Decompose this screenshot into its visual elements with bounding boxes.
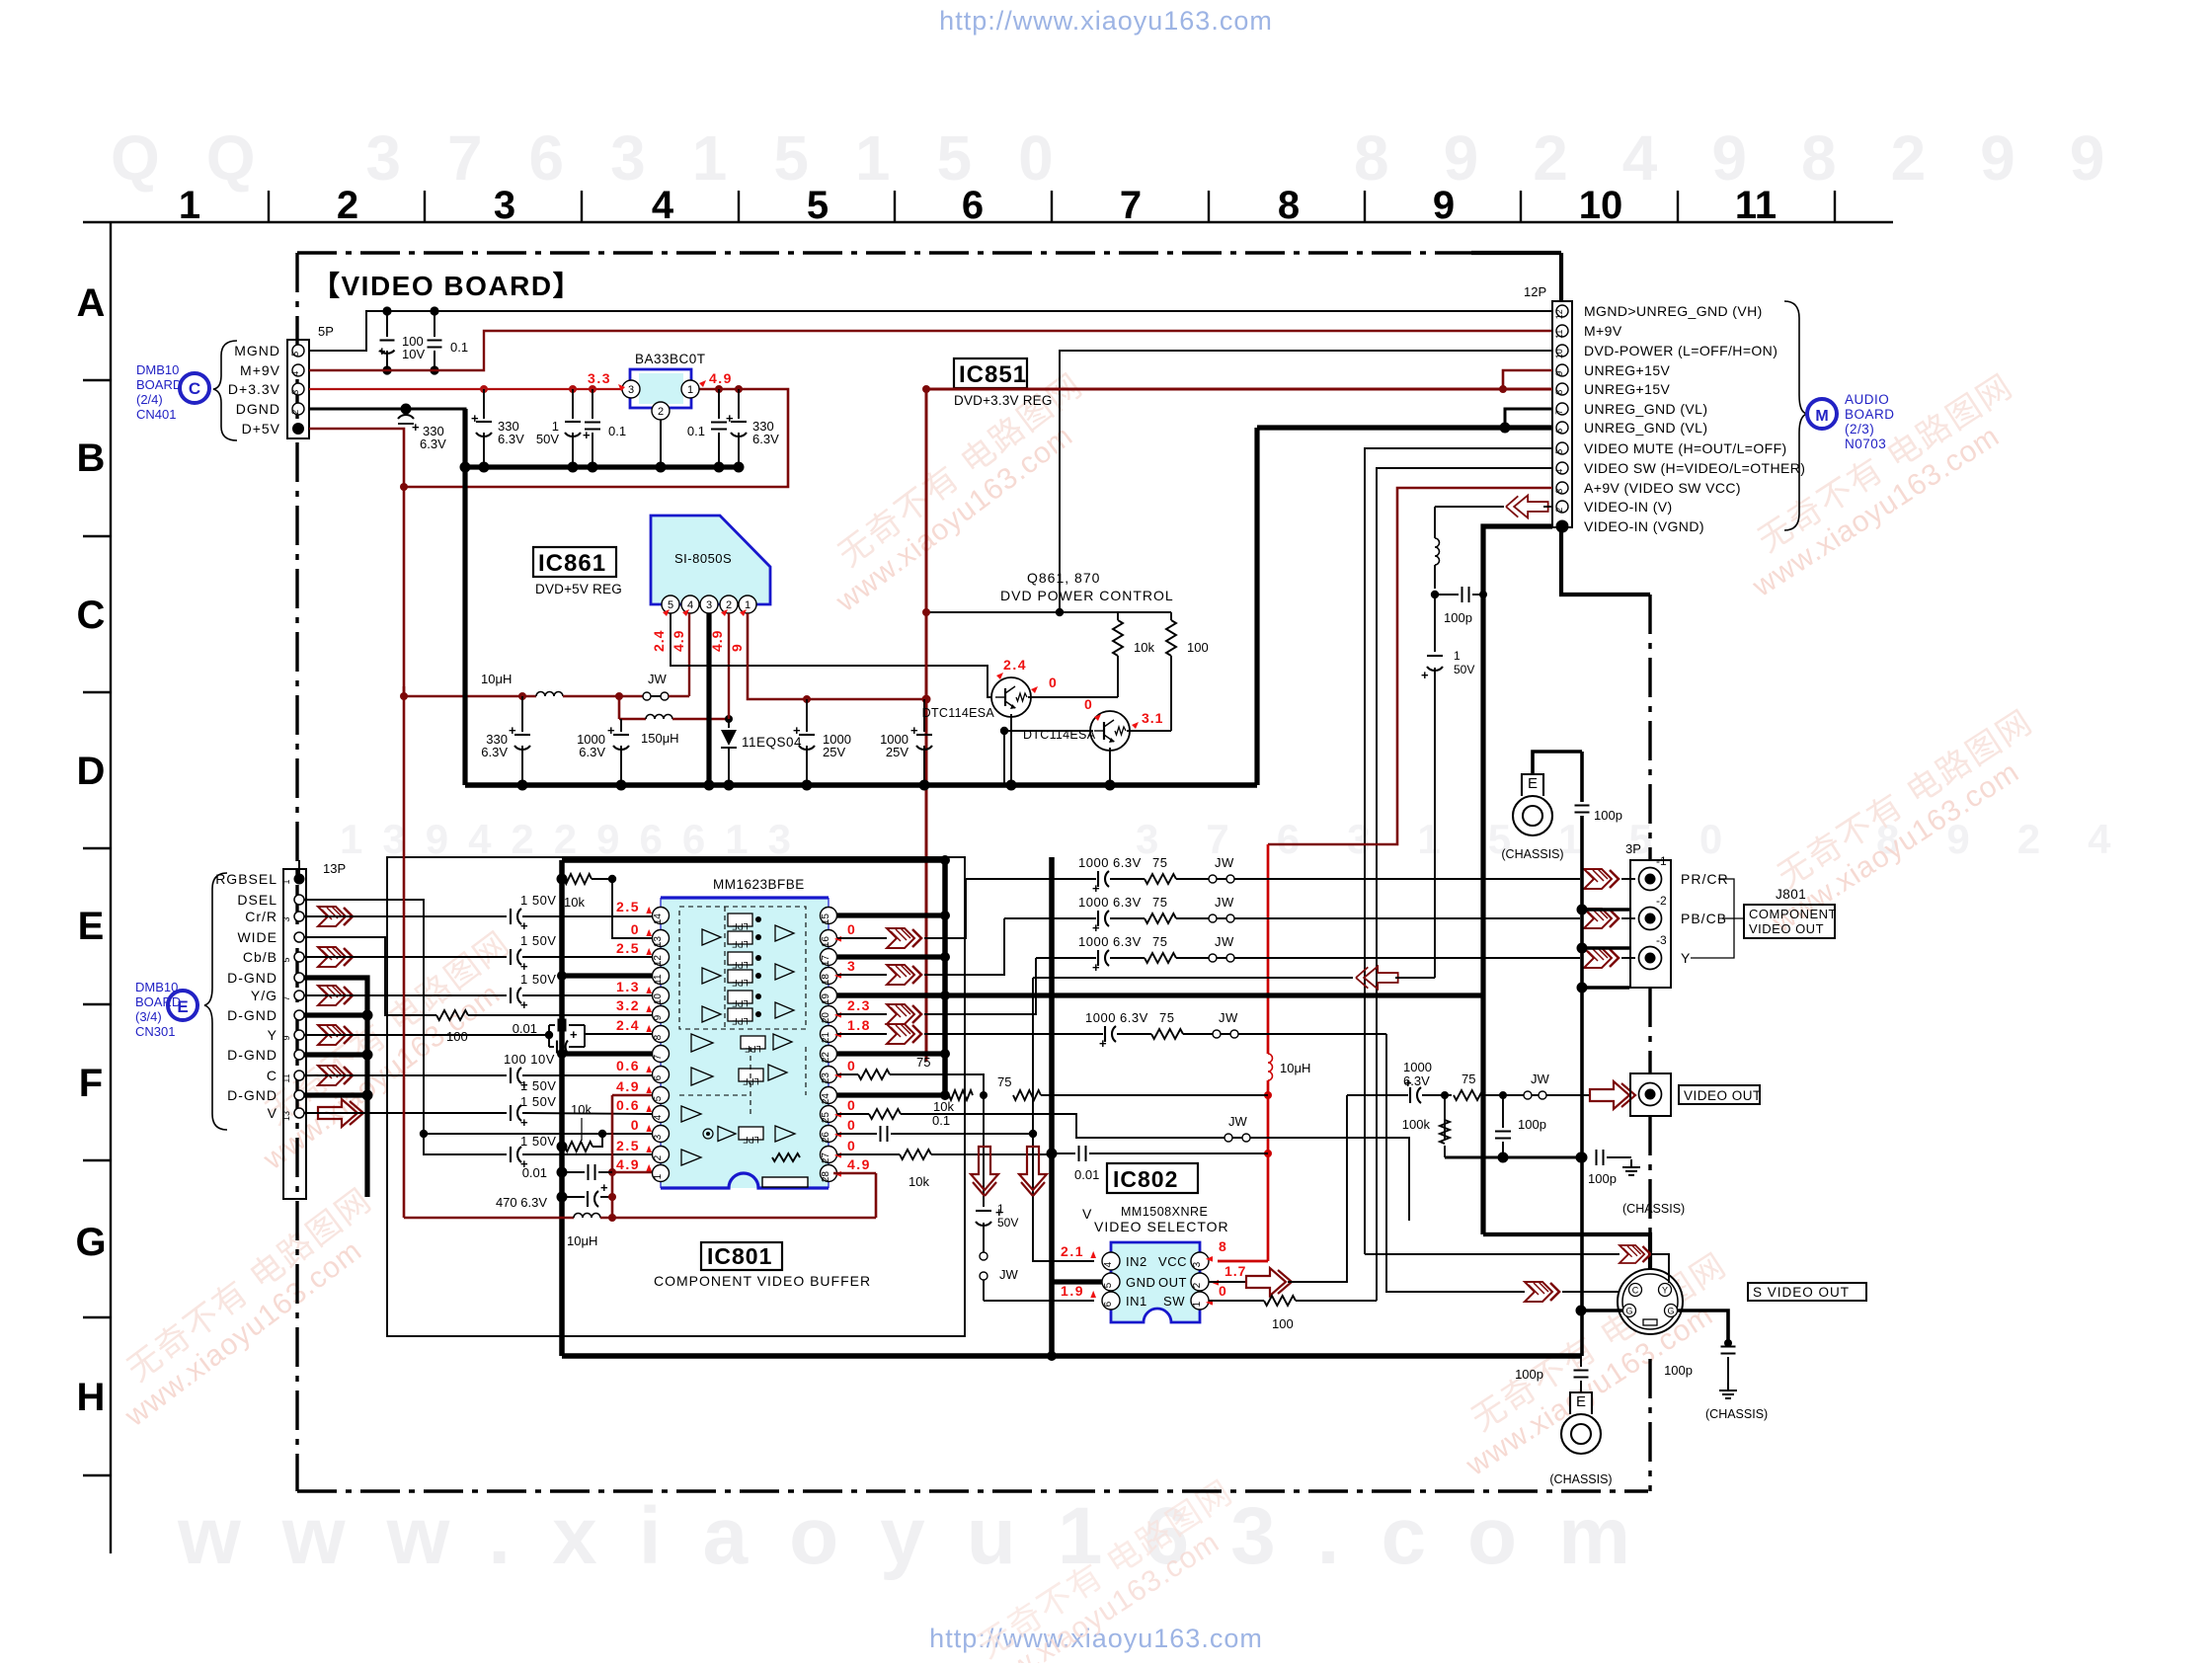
svg-text:0.1: 0.1 bbox=[450, 340, 468, 355]
svg-text:0.1: 0.1 bbox=[932, 1113, 950, 1128]
svg-text:7: 7 bbox=[1120, 184, 1142, 227]
svg-text:E: E bbox=[1576, 1393, 1586, 1410]
svg-text:0: 0 bbox=[631, 921, 640, 937]
capacitor 100p in ground spine bbox=[1575, 805, 1590, 807]
svg-text:1: 1 bbox=[1192, 1301, 1203, 1307]
wire Y/G input bbox=[304, 994, 507, 996]
svg-text:6.3V: 6.3V bbox=[1403, 1073, 1430, 1088]
svg-text:LPF: LPF bbox=[745, 1044, 761, 1054]
svg-text:3: 3 bbox=[494, 184, 515, 227]
svg-text:13942296613: 13942296613 bbox=[340, 816, 811, 862]
capacitor 1000 6.3V resistor 75 jumper JW on Y row bbox=[1036, 957, 1096, 959]
wire ground to IC801 pin7 bbox=[562, 1051, 652, 1056]
svg-text:6: 6 bbox=[653, 1074, 664, 1080]
wire VIDEO-IN VGND net bbox=[1483, 526, 1552, 1234]
wire RGBSEL to ground bus bbox=[298, 860, 300, 874]
svg-text:1000 6.3V: 1000 6.3V bbox=[1078, 934, 1142, 949]
svg-text:8: 8 bbox=[1219, 1238, 1226, 1254]
wire 4.9V supply loop with inductor 10uH bbox=[403, 686, 406, 1218]
svg-text:D+5V: D+5V bbox=[242, 421, 280, 437]
wire M+9V net bbox=[309, 331, 1552, 370]
svg-text:10: 10 bbox=[1554, 349, 1564, 358]
svg-text:JW: JW bbox=[648, 672, 668, 686]
svg-text:4: 4 bbox=[1554, 469, 1564, 474]
svg-text:100p: 100p bbox=[1664, 1363, 1693, 1378]
arrow Y to S-video bbox=[1619, 1245, 1651, 1263]
svg-text:D-GND: D-GND bbox=[227, 1047, 277, 1063]
svg-text:0.01: 0.01 bbox=[1074, 1167, 1099, 1182]
svg-text:C: C bbox=[77, 594, 106, 637]
wire jack shield stubs bbox=[1577, 905, 1588, 915]
svg-text:G: G bbox=[1667, 1307, 1674, 1316]
wire VGND to IC801 pin19 bbox=[837, 993, 1483, 997]
svg-text:2: 2 bbox=[726, 599, 732, 611]
svg-text:2.5: 2.5 bbox=[616, 1138, 640, 1153]
svg-text:+: + bbox=[570, 1027, 578, 1042]
svg-text:3.2: 3.2 bbox=[616, 997, 640, 1013]
svg-text:4.9: 4.9 bbox=[616, 1078, 640, 1094]
svg-text:+: + bbox=[520, 997, 528, 1012]
svg-text:DVD-POWER (L=OFF/H=ON): DVD-POWER (L=OFF/H=ON) bbox=[1584, 343, 1777, 358]
svg-text:【VIDEO BOARD】: 【VIDEO BOARD】 bbox=[312, 271, 582, 301]
inductor 150uH branch to IC861 pin2 bbox=[618, 696, 621, 719]
svg-text:GND: GND bbox=[1126, 1275, 1155, 1290]
svg-text:Cr/R: Cr/R bbox=[245, 909, 277, 924]
resistor 75 on video out bbox=[1454, 1090, 1485, 1100]
wire IC861 pin5 control bbox=[671, 613, 994, 697]
svg-text:6.3V: 6.3V bbox=[579, 745, 605, 759]
svg-text:6: 6 bbox=[1103, 1301, 1114, 1307]
svg-text:12: 12 bbox=[653, 955, 664, 967]
label IC851 DVD+3.3V REG bbox=[954, 358, 1027, 388]
svg-text:DVD+5V REG: DVD+5V REG bbox=[535, 582, 622, 596]
svg-text:M+9V: M+9V bbox=[240, 362, 280, 378]
svg-text:75: 75 bbox=[1461, 1072, 1475, 1086]
svg-text:(CHASSIS): (CHASSIS) bbox=[1501, 847, 1563, 861]
wire S-video ground left bbox=[1581, 1309, 1622, 1312]
wire IC801 pin27 with resistor bbox=[837, 1153, 900, 1155]
svg-text:1.8: 1.8 bbox=[847, 1017, 871, 1033]
svg-text:5: 5 bbox=[807, 184, 829, 227]
connector S VIDEO OUT bbox=[1618, 1269, 1683, 1334]
svg-text:100k: 100k bbox=[1402, 1117, 1431, 1132]
svg-text:COMPONENT: COMPONENT bbox=[1749, 907, 1837, 921]
svg-text:UNREG+15V: UNREG+15V bbox=[1584, 381, 1671, 397]
svg-text:D+3.3V: D+3.3V bbox=[228, 381, 280, 397]
capacitor 100p to bottom chassis E bbox=[1580, 1356, 1582, 1367]
svg-text:75: 75 bbox=[1152, 855, 1167, 870]
svg-text:1 50V: 1 50V bbox=[520, 933, 556, 948]
wire chassis ground spine bbox=[1533, 752, 1582, 774]
svg-text:+: + bbox=[1421, 668, 1429, 682]
svg-text:UNREG+15V: UNREG+15V bbox=[1584, 362, 1671, 378]
svg-text:10k: 10k bbox=[908, 1174, 929, 1189]
svg-text:1000: 1000 bbox=[1403, 1060, 1432, 1074]
svg-text:JW: JW bbox=[1228, 1114, 1248, 1129]
svg-text:10: 10 bbox=[1579, 184, 1623, 227]
svg-text:50V: 50V bbox=[536, 432, 559, 446]
svg-text:1 50V: 1 50V bbox=[520, 972, 556, 987]
svg-text:7: 7 bbox=[653, 1054, 664, 1060]
wire thin enclosure around IC801 section bbox=[387, 857, 965, 1336]
video board outline left dash-dot bbox=[295, 253, 298, 1491]
svg-text:5: 5 bbox=[281, 957, 291, 962]
svg-text:+: + bbox=[471, 411, 479, 426]
svg-text:14: 14 bbox=[653, 913, 664, 925]
svg-text:2: 2 bbox=[1192, 1282, 1203, 1288]
svg-text:6: 6 bbox=[962, 184, 984, 227]
svg-text:JW: JW bbox=[1215, 855, 1234, 870]
wire ground bus right of IC801 bbox=[942, 860, 948, 1095]
wire IC801 pin20 Y output / arrow bbox=[837, 1013, 887, 1015]
capacitor 0.01 VCC decoupling bbox=[1047, 1149, 1058, 1159]
resistor 10k and resistor 75 at IC801 pin24 VCC bbox=[949, 1090, 973, 1100]
svg-text:0: 0 bbox=[631, 1117, 640, 1133]
wire video out row bbox=[1347, 1094, 1408, 1096]
svg-text:+: + bbox=[412, 420, 420, 435]
svg-text:1.9: 1.9 bbox=[1061, 1283, 1084, 1299]
svg-text:1: 1 bbox=[1454, 649, 1461, 663]
svg-text:3: 3 bbox=[628, 384, 634, 396]
op-amp U IC802 MM1508XNRE VIDEO SELECTOR body bbox=[1111, 1242, 1200, 1322]
wire DVD power control node bbox=[926, 611, 1171, 613]
wire IC861 pin1 9V input rail bbox=[748, 613, 926, 699]
svg-text:+: + bbox=[910, 723, 918, 738]
svg-text:JW: JW bbox=[1219, 1010, 1238, 1025]
svg-text:+: + bbox=[1092, 920, 1100, 935]
svg-text:3.3: 3.3 bbox=[588, 370, 611, 386]
svg-text:25V: 25V bbox=[823, 745, 845, 759]
svg-text:JW: JW bbox=[1215, 895, 1234, 910]
svg-text:100: 100 bbox=[1272, 1316, 1294, 1331]
svg-text:www.xiaoyu163.com: www.xiaoyu163.com bbox=[177, 1491, 1672, 1581]
svg-text:D-GND: D-GND bbox=[227, 1087, 277, 1103]
svg-text:BOARD: BOARD bbox=[135, 994, 181, 1009]
wire UNREG+15V pins 8-9 bbox=[1503, 370, 1552, 389]
svg-text:+: + bbox=[726, 411, 734, 426]
svg-text:1: 1 bbox=[997, 1202, 1004, 1216]
ground chassis E symbol bottom bbox=[1570, 1392, 1592, 1414]
wire S-video ground right with capacitor 100p bbox=[1678, 1311, 1728, 1343]
capacitor 100p pulldown bbox=[1502, 1095, 1504, 1128]
svg-text:JW: JW bbox=[1215, 934, 1234, 949]
svg-text:C: C bbox=[267, 1068, 277, 1083]
svg-text:LPF: LPF bbox=[732, 939, 749, 949]
svg-text:N0703: N0703 bbox=[1845, 437, 1886, 451]
svg-text:0.01: 0.01 bbox=[513, 1021, 537, 1036]
wire A+9V net bbox=[1268, 488, 1552, 844]
svg-text:DGND: DGND bbox=[236, 401, 280, 417]
svg-text:1.3: 1.3 bbox=[616, 979, 640, 994]
arrow video-in signal flow bbox=[1506, 496, 1548, 518]
svg-text:11: 11 bbox=[1735, 184, 1777, 227]
svg-text:0.01: 0.01 bbox=[522, 1165, 547, 1180]
board ref circle C / DMB10 BOARD CN401 bbox=[180, 373, 209, 403]
capacitor 0.01 and capacitor 470 6.3V on 4.9V rail bbox=[557, 1167, 568, 1178]
svg-text:10k: 10k bbox=[1134, 640, 1154, 655]
svg-text:Y: Y bbox=[1662, 1286, 1668, 1296]
video board outline top dash-dot bbox=[297, 251, 1471, 254]
svg-text:Y/G: Y/G bbox=[251, 988, 277, 1003]
watermark pink diagonal group bbox=[234, 924, 537, 1177]
svg-text:0.6: 0.6 bbox=[616, 1097, 640, 1113]
svg-text:DMB10: DMB10 bbox=[135, 980, 178, 994]
svg-text:17: 17 bbox=[821, 955, 831, 967]
svg-text:4: 4 bbox=[652, 184, 674, 227]
svg-text:4.9: 4.9 bbox=[847, 1156, 871, 1172]
svg-text:IN1: IN1 bbox=[1126, 1294, 1147, 1309]
svg-text:SW: SW bbox=[1163, 1294, 1185, 1309]
svg-text:0: 0 bbox=[1219, 1283, 1226, 1299]
svg-text:+: + bbox=[793, 723, 801, 738]
svg-text:D-GND: D-GND bbox=[227, 970, 277, 986]
svg-text:9: 9 bbox=[729, 643, 745, 652]
transistor Q861 DTC114ESA bbox=[991, 677, 1031, 717]
svg-text:B: B bbox=[77, 437, 106, 480]
svg-text:F: F bbox=[79, 1062, 103, 1105]
svg-text:LPF: LPF bbox=[732, 1016, 749, 1026]
svg-text:DSEL: DSEL bbox=[237, 892, 277, 908]
svg-text:3: 3 bbox=[290, 390, 300, 395]
resistor 100k pulldown bbox=[1444, 1095, 1446, 1140]
svg-text:VIDEO SW (H=VIDEO/L=OTHER): VIDEO SW (H=VIDEO/L=OTHER) bbox=[1584, 460, 1805, 476]
svg-text:5: 5 bbox=[668, 599, 673, 611]
wire IC801 pin16 PR output / arrow bbox=[837, 937, 887, 939]
wire ground bus of regulator section bbox=[465, 782, 1257, 788]
capacitor 100 10V and capacitor 0.1 on M+9V bbox=[382, 306, 391, 315]
svg-text:2.5: 2.5 bbox=[616, 940, 640, 956]
svg-text:50V: 50V bbox=[1454, 663, 1474, 676]
svg-text:E: E bbox=[78, 905, 105, 948]
svg-text:10k: 10k bbox=[564, 895, 585, 910]
wire D+3.3V net bbox=[309, 388, 622, 390]
svg-text:2: 2 bbox=[658, 406, 664, 418]
svg-text:5: 5 bbox=[1103, 1282, 1114, 1288]
svg-text:(CHASSIS): (CHASSIS) bbox=[1705, 1407, 1768, 1421]
wire VIDEO SW net bbox=[1377, 468, 1552, 1301]
svg-text:100p: 100p bbox=[1588, 1171, 1617, 1186]
svg-text:SI-8050S: SI-8050S bbox=[674, 551, 732, 566]
capacitor 100 10V on C bbox=[510, 1068, 512, 1083]
wire ground bus to IC802 GND bbox=[1049, 857, 1055, 1356]
wire IC801 pin18 PB output / arrow bbox=[837, 974, 887, 976]
label IC802 bbox=[1107, 1163, 1198, 1193]
svg-text:VIDEO OUT: VIDEO OUT bbox=[1749, 921, 1824, 936]
svg-text:10V: 10V bbox=[402, 347, 425, 361]
svg-text:75: 75 bbox=[1152, 895, 1167, 910]
svg-text:IC861: IC861 bbox=[538, 550, 606, 577]
arrow C to S-video bbox=[1525, 1282, 1559, 1302]
svg-text:G: G bbox=[75, 1221, 106, 1264]
wire IC861 pin3 ground bbox=[706, 613, 711, 785]
wire IC801 pin23 with resistor 75 bbox=[837, 1073, 858, 1075]
svg-text:JW: JW bbox=[1531, 1072, 1550, 1086]
board outline right edge via connectors bbox=[1561, 527, 1650, 595]
svg-text:VCC: VCC bbox=[1158, 1254, 1187, 1269]
svg-text:IN2: IN2 bbox=[1126, 1254, 1147, 1269]
svg-text:+: + bbox=[520, 918, 528, 933]
svg-text:11: 11 bbox=[1554, 330, 1564, 339]
svg-text:6: 6 bbox=[1554, 429, 1564, 434]
svg-text:VIDEO-IN (VGND): VIDEO-IN (VGND) bbox=[1584, 518, 1704, 534]
svg-text:(2/3): (2/3) bbox=[1845, 422, 1874, 437]
svg-text:26: 26 bbox=[821, 1132, 831, 1144]
svg-text:M+9V: M+9V bbox=[1584, 323, 1622, 339]
svg-text:16: 16 bbox=[821, 936, 831, 948]
svg-text:DVD POWER CONTROL: DVD POWER CONTROL bbox=[1000, 588, 1174, 603]
svg-text:20: 20 bbox=[821, 1012, 831, 1024]
svg-text:S VIDEO OUT: S VIDEO OUT bbox=[1753, 1285, 1850, 1300]
wire pulldown ground row bbox=[1445, 1156, 1581, 1159]
svg-text:27: 27 bbox=[821, 1152, 831, 1164]
svg-text:7: 7 bbox=[281, 995, 291, 1000]
svg-text:LPF: LPF bbox=[732, 960, 749, 970]
svg-text:UNREG_GND (VL): UNREG_GND (VL) bbox=[1584, 420, 1707, 436]
svg-text:(2/4): (2/4) bbox=[136, 392, 163, 407]
jack VIDEO OUT bbox=[1630, 1073, 1671, 1116]
svg-text:10: 10 bbox=[653, 993, 664, 1005]
wire A+9V vertical with inductor 10uH bbox=[1267, 844, 1270, 1054]
svg-text:4.9: 4.9 bbox=[709, 370, 733, 386]
svg-text:QQ 376315150: QQ 376315150 bbox=[111, 122, 1100, 194]
svg-text:11: 11 bbox=[653, 974, 664, 985]
svg-text:75: 75 bbox=[1159, 1010, 1174, 1025]
wire IC801 pin21 C output / arrow bbox=[837, 1033, 887, 1035]
svg-text:DTC114ESA: DTC114ESA bbox=[922, 706, 995, 720]
capacitor 1000 6.3V resistor 75 jumper JW on PB row bbox=[1004, 917, 1096, 919]
svg-text:28: 28 bbox=[821, 1171, 831, 1183]
svg-text:E: E bbox=[1528, 775, 1538, 792]
svg-text:13: 13 bbox=[281, 1111, 291, 1121]
wire C input bbox=[304, 1074, 507, 1076]
svg-text:C: C bbox=[189, 379, 200, 398]
wire Cr/R input bbox=[304, 915, 507, 917]
svg-text:0: 0 bbox=[847, 1097, 856, 1113]
svg-text:0.1: 0.1 bbox=[687, 424, 705, 438]
svg-text:AUDIO: AUDIO bbox=[1845, 392, 1889, 407]
capacitor 330 6.3V on D+3.3V bbox=[483, 389, 485, 419]
capacitor 1000 6.3V resistor 75 jumper JW on PR row bbox=[966, 878, 1096, 880]
svg-text:JW: JW bbox=[999, 1267, 1019, 1282]
svg-text:6.3V: 6.3V bbox=[420, 437, 446, 451]
svg-text:VIDEO OUT: VIDEO OUT bbox=[1684, 1088, 1762, 1103]
svg-text:V: V bbox=[1082, 1206, 1092, 1222]
svg-text:8: 8 bbox=[1278, 184, 1300, 227]
grid ruler left line bbox=[110, 222, 112, 1553]
svg-text:3: 3 bbox=[1192, 1261, 1203, 1267]
svg-text:8: 8 bbox=[653, 1034, 664, 1040]
jumper JW on video out bbox=[1524, 1091, 1532, 1099]
svg-text:12P: 12P bbox=[1524, 284, 1546, 299]
svg-text:18: 18 bbox=[821, 974, 831, 986]
svg-text:D-GND: D-GND bbox=[227, 1007, 277, 1023]
capacitor 330 6.3V on 5V rail bbox=[518, 692, 526, 700]
wire DSEL to IC801 bbox=[304, 900, 507, 1154]
svg-text:MGND: MGND bbox=[234, 343, 280, 358]
resistor 100 bbox=[1166, 620, 1176, 656]
wire IC802 OUT pin2 / arrow bbox=[1209, 1281, 1246, 1283]
capacitor 1000 6.3V on 5V rail bbox=[620, 719, 622, 732]
capacitor 1 50V on V bbox=[510, 1105, 512, 1121]
svg-text:0: 0 bbox=[847, 921, 856, 937]
svg-text:M: M bbox=[1815, 408, 1828, 425]
svg-text:OUT: OUT bbox=[1158, 1275, 1187, 1290]
svg-text:1: 1 bbox=[281, 879, 291, 884]
wire D+5V net loop bbox=[309, 389, 788, 487]
transistor Q870 DTC114ESA bbox=[1090, 711, 1130, 751]
ground chassis hatch right bbox=[1727, 1383, 1729, 1390]
svg-text:0: 0 bbox=[847, 1058, 856, 1073]
svg-text:PB/CB: PB/CB bbox=[1681, 911, 1727, 926]
svg-text:9: 9 bbox=[281, 1035, 291, 1040]
wire ground bus left of IC801 bbox=[559, 860, 565, 1356]
svg-text:23: 23 bbox=[821, 1072, 831, 1084]
svg-text:Q861, 870: Q861, 870 bbox=[1027, 570, 1100, 586]
svg-text:1.7: 1.7 bbox=[1224, 1263, 1246, 1279]
svg-text:10μH: 10μH bbox=[567, 1233, 597, 1248]
svg-text:7: 7 bbox=[1554, 410, 1564, 415]
svg-text:3: 3 bbox=[847, 958, 856, 974]
svg-text:VIDEO-IN (V): VIDEO-IN (V) bbox=[1584, 499, 1673, 515]
svg-text:0: 0 bbox=[847, 1117, 856, 1133]
svg-text:DMB10: DMB10 bbox=[136, 362, 179, 377]
svg-text:24: 24 bbox=[821, 1093, 831, 1105]
capacitor 1 50V on Y/G bbox=[510, 988, 512, 1003]
svg-text:470 6.3V: 470 6.3V bbox=[496, 1195, 547, 1210]
svg-text:+: + bbox=[1099, 1036, 1107, 1051]
svg-text:0.6: 0.6 bbox=[616, 1058, 640, 1073]
arrows to component jacks bbox=[1584, 869, 1619, 889]
svg-text:3: 3 bbox=[281, 916, 291, 921]
svg-text:VIDEO SELECTOR: VIDEO SELECTOR bbox=[1094, 1219, 1229, 1234]
svg-text:+: + bbox=[509, 723, 516, 738]
capacitor 1 50V on Cr/R bbox=[510, 909, 512, 924]
grid ruler top line bbox=[83, 221, 1893, 223]
svg-text:MM1623BFBE: MM1623BFBE bbox=[713, 877, 805, 892]
svg-text:8: 8 bbox=[1554, 390, 1564, 395]
svg-text:100p: 100p bbox=[1594, 808, 1622, 823]
wire IC802 SW pin1 with resistor 100 bbox=[1209, 1300, 1264, 1302]
svg-text:4: 4 bbox=[653, 1114, 664, 1120]
svg-text:4.9: 4.9 bbox=[671, 630, 686, 652]
svg-text:100p: 100p bbox=[1444, 610, 1472, 625]
svg-text:DVD+3.3V REG: DVD+3.3V REG bbox=[954, 393, 1053, 408]
svg-text:0: 0 bbox=[1049, 675, 1057, 690]
svg-text:100 10V: 100 10V bbox=[504, 1052, 555, 1067]
svg-text:BOARD: BOARD bbox=[1845, 407, 1895, 422]
svg-text:10μH: 10μH bbox=[481, 672, 512, 686]
svg-text:75: 75 bbox=[1152, 934, 1167, 949]
svg-text:1: 1 bbox=[687, 384, 693, 396]
svg-text:A: A bbox=[77, 281, 106, 325]
svg-text:1 50V: 1 50V bbox=[520, 1094, 556, 1109]
wire IC801 pin26 composite out with capacitor 0.1 bbox=[837, 1133, 877, 1135]
IC801 pins 1-28 bbox=[653, 908, 670, 924]
svg-text:(CHASSIS): (CHASSIS) bbox=[1622, 1202, 1685, 1216]
svg-text:2.4: 2.4 bbox=[1003, 657, 1027, 673]
board outline heavy corner to 12P bbox=[1471, 251, 1561, 255]
svg-text:2.4: 2.4 bbox=[651, 630, 667, 652]
IC801 internal LPF blocks and buffers bbox=[679, 907, 806, 1029]
svg-text:100p: 100p bbox=[1518, 1117, 1546, 1132]
svg-text:6.3V: 6.3V bbox=[481, 745, 508, 759]
svg-text:(3/4): (3/4) bbox=[135, 1009, 162, 1024]
capacitor 0.1 on D+3.3V bbox=[592, 389, 593, 419]
capacitor 1000 25V pair bbox=[806, 699, 808, 732]
svg-text:10μH: 10μH bbox=[1280, 1061, 1310, 1075]
wire ground bus bottom bbox=[562, 1353, 1581, 1359]
svg-text:+: + bbox=[607, 723, 615, 738]
